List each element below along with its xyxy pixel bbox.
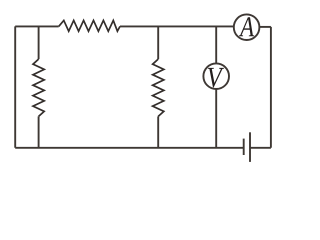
wire: bottom right to battery long plate: [250, 147, 271, 149]
voltmeter U2 circle: [203, 63, 229, 89]
battery B1 short plate: [243, 139, 245, 155]
wire: R3 branch bottom lead: [157, 116, 159, 147]
battery B1 long plate: [249, 132, 251, 162]
wire: R2 branch top lead: [38, 26, 40, 59]
resistor R2 (left vertical): [33, 59, 44, 116]
wire: bottom bus: [15, 147, 244, 149]
voltmeter U2 label V: [208, 68, 224, 88]
wire: left vertical: [14, 26, 16, 147]
wire: top bus right segment to ammeter: [120, 25, 234, 27]
ammeter U1 circle: [234, 14, 260, 40]
wire: voltmeter branch top lead: [215, 26, 217, 63]
wire: top bus left segment: [15, 25, 59, 27]
wire: ammeter to top-right corner: [259, 26, 271, 28]
wire: R2 branch bottom lead: [38, 116, 40, 147]
wire: right vertical: [270, 27, 272, 148]
resistor R3 (middle vertical): [153, 59, 164, 116]
resistor R1 (horizontal, top wire): [59, 20, 120, 31]
wire: R3 branch top lead: [157, 26, 159, 59]
ammeter U1 label A: [239, 17, 254, 36]
wire: voltmeter branch bottom lead: [215, 89, 217, 148]
